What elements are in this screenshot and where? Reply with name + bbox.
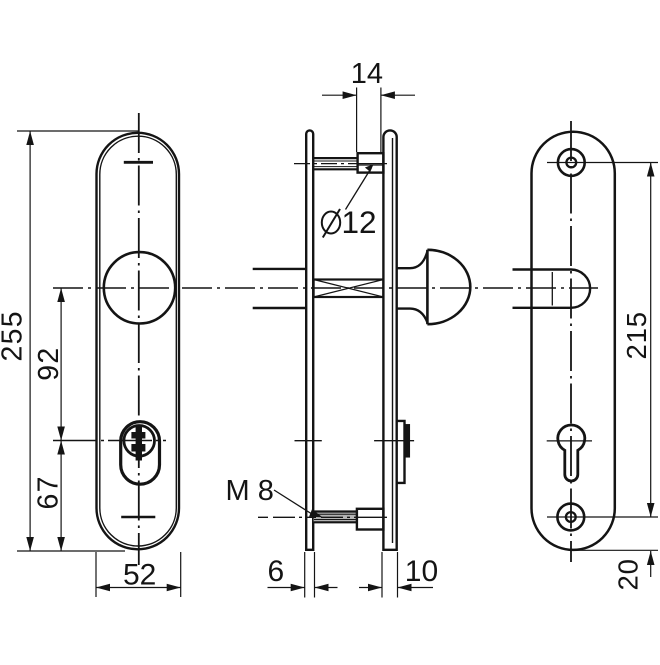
keyhole crosshair	[547, 440, 592, 442]
cylinder housing bump	[397, 421, 405, 483]
top bolt rod	[314, 157, 357, 159]
knob side	[397, 252, 428, 323]
dim 52	[95, 552, 97, 597]
svg-text:92: 92	[33, 346, 65, 380]
top screw cross	[124, 161, 153, 164]
left plate side	[306, 130, 313, 549]
svg-text:10: 10	[405, 555, 438, 588]
leader M8	[274, 490, 315, 516]
plate outline	[532, 132, 615, 550]
euro profile keyhole	[558, 425, 585, 481]
cylinder centerline	[53, 440, 166, 442]
dim 14	[356, 88, 358, 153]
svg-text:20: 20	[613, 558, 644, 590]
ext top	[17, 130, 139, 132]
svg-text:67: 67	[33, 475, 65, 509]
ext line bottom	[572, 549, 658, 551]
svg-text:215: 215	[621, 311, 652, 359]
dim 67	[60, 441, 62, 552]
svg-text:M 8: M 8	[226, 475, 274, 507]
vertical centerline	[570, 121, 572, 562]
knob circle	[104, 252, 175, 323]
bottom screw cross	[121, 516, 155, 518]
outer plate outline	[97, 133, 180, 550]
top screw	[558, 149, 585, 176]
keyway solid	[131, 425, 145, 461]
bottom sleeve	[357, 509, 384, 530]
ext bottom	[17, 550, 125, 552]
dim 215	[650, 163, 652, 518]
leader Ø12	[346, 168, 372, 210]
right plate side	[383, 130, 396, 549]
bottom screw	[557, 504, 584, 531]
cylinder centerline ticks	[295, 440, 322, 442]
spindle	[314, 280, 384, 298]
dim 92	[60, 288, 62, 441]
vertical centerline	[138, 113, 140, 565]
top sleeve	[358, 153, 384, 172]
handle notch	[513, 270, 591, 308]
bottom bolt centerline	[258, 516, 359, 518]
handle stub	[253, 268, 306, 270]
dim 255	[29, 131, 31, 551]
inner plate outline	[100, 136, 177, 546]
svg-text:12: 12	[342, 204, 377, 240]
global horizontal centerline	[53, 287, 598, 289]
svg-text:6: 6	[268, 555, 285, 588]
top bolt centerline	[294, 163, 359, 165]
svg-text:14: 14	[351, 58, 383, 90]
dim 6 and 10	[304, 552, 306, 598]
cylinder circle	[124, 426, 155, 457]
svg-text:52: 52	[123, 559, 156, 592]
dim 20 arrow	[650, 551, 652, 577]
cylinder escutcheon stadium	[121, 422, 160, 485]
right plate inner edge	[392, 138, 394, 543]
bottom bolt rod	[314, 512, 357, 523]
svg-text:255: 255	[0, 310, 29, 361]
